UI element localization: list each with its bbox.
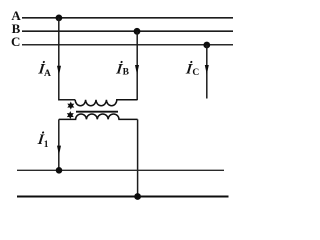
- current arrow I_C: [205, 65, 209, 75]
- wire: drop from B node to primary winding right end: [136, 31, 138, 100]
- wire: output line (upper): [17, 169, 224, 171]
- wire: secondary left lead down to output line: [58, 119, 60, 170]
- wire: stub from C node (unconnected below): [206, 45, 208, 99]
- transformer secondary winding (bottom coil): [59, 114, 138, 119]
- polarity mark primary (asterisk): [68, 103, 73, 109]
- junction node on upper output line: [56, 167, 63, 174]
- wire: bus line C: [22, 44, 233, 46]
- current arrow I_1: [57, 146, 61, 156]
- current arrow I_A: [57, 66, 61, 76]
- svg-text:C: C: [192, 68, 199, 78]
- wire: bus line A: [22, 17, 233, 19]
- junction node on lower output line: [134, 193, 141, 200]
- junction node on line A: [56, 15, 63, 22]
- current arrow I_B: [135, 65, 139, 75]
- junction node on line B: [134, 28, 141, 35]
- wire: secondary right lead down to bottom line: [137, 119, 139, 196]
- svg-text:B: B: [123, 68, 130, 78]
- wire: drop from A node to primary winding left end: [59, 18, 75, 100]
- wire: output line (lower): [17, 196, 229, 198]
- svg-text:1: 1: [44, 140, 49, 150]
- svg-text:C: C: [11, 34, 20, 49]
- transformer T primary winding (top coil): [75, 100, 137, 106]
- transformer core bar: [76, 111, 118, 113]
- svg-text:A: A: [44, 69, 51, 79]
- junction node on line C: [203, 42, 210, 49]
- polarity mark secondary (asterisk): [68, 112, 73, 118]
- wire: bus line B: [22, 30, 233, 32]
